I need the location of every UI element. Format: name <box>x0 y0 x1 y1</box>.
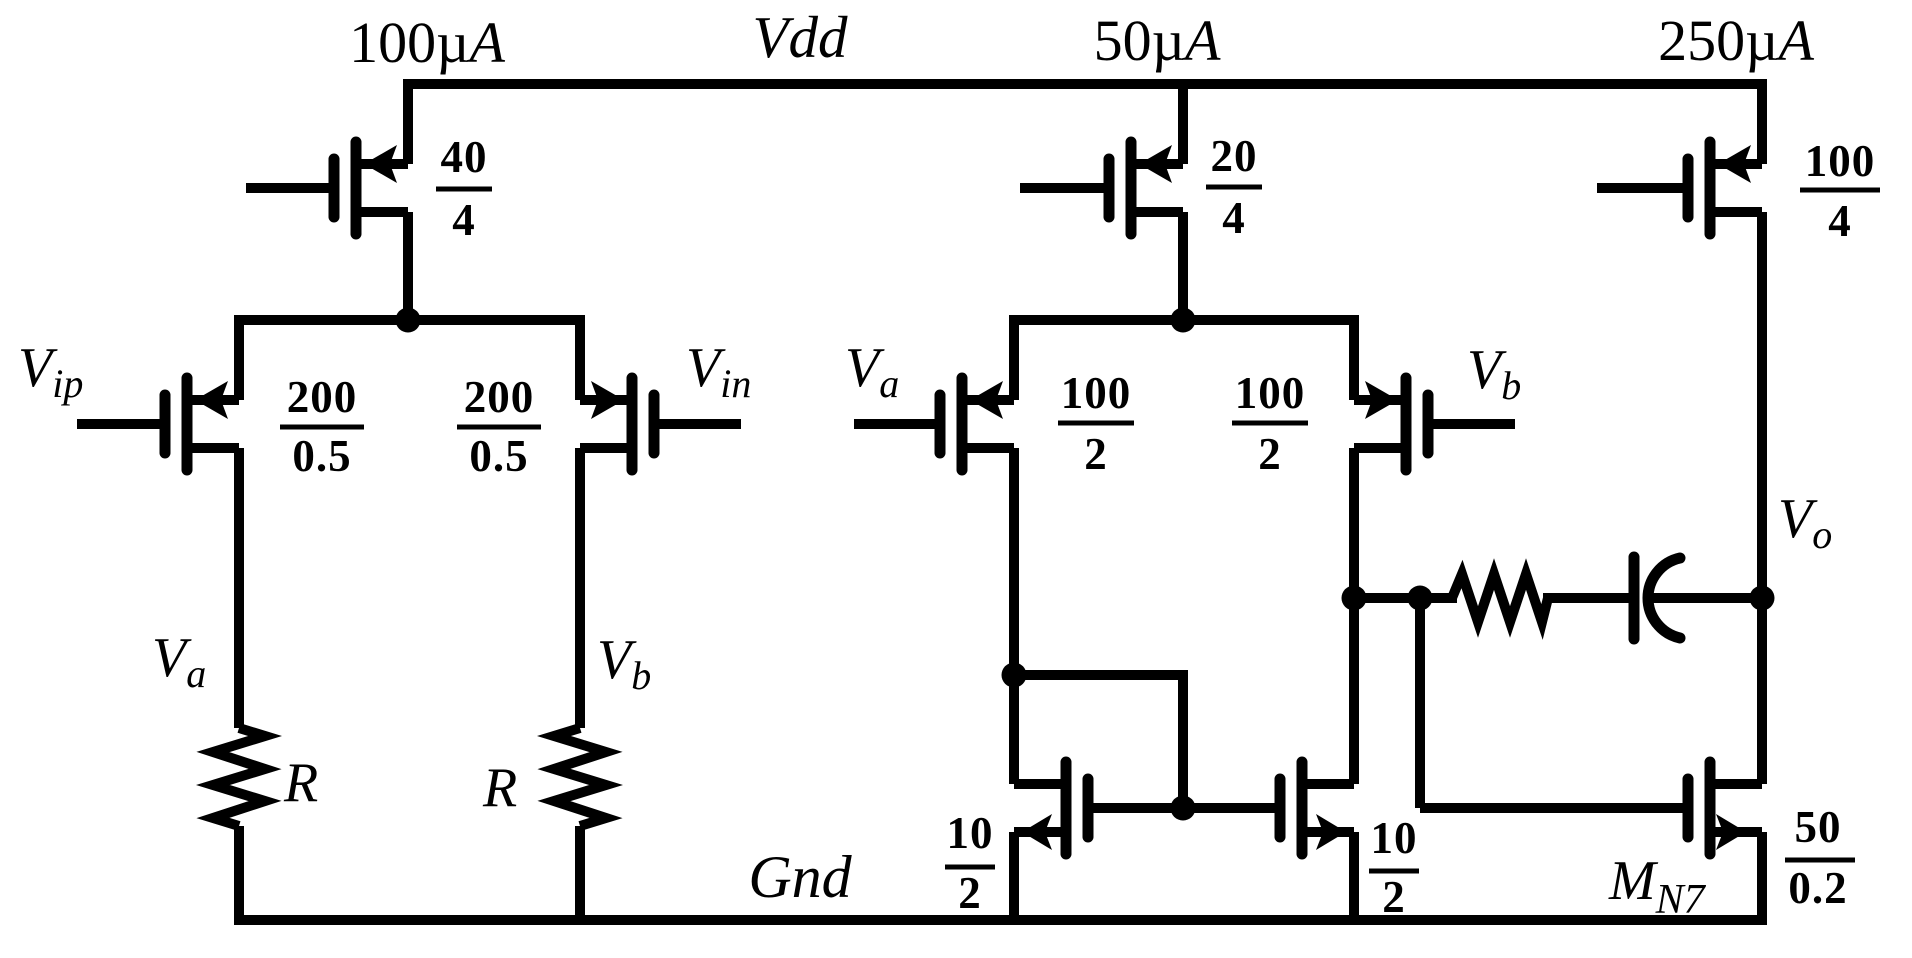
svg-text:0.5: 0.5 <box>292 431 351 481</box>
pmos M5 100/2 gate Vb <box>1354 378 1515 470</box>
wire M6 source to Vdd rail <box>1178 84 1188 164</box>
svg-text:250µA: 250µA <box>1658 8 1814 73</box>
svg-text:100µA: 100µA <box>349 10 505 75</box>
wire tail to M3 source <box>575 315 585 400</box>
svg-text:100: 100 <box>1805 136 1876 186</box>
label value M3 W/L 200/0.5 <box>464 372 535 481</box>
svg-text:0.2: 0.2 <box>1788 863 1847 913</box>
wire M5 drain down to M9 drain <box>1349 448 1359 784</box>
wire M8 diode tap (drain to gate link) <box>1014 675 1183 808</box>
node second-stage output junction <box>1342 586 1367 611</box>
wire R2 bottom to Gnd rail <box>575 826 585 925</box>
svg-text:2: 2 <box>1258 429 1282 479</box>
wire M4 drain down to M8 drain <box>1009 448 1019 784</box>
node second-stage tail junction <box>1171 308 1196 333</box>
wire gate link M8-M9 <box>1088 803 1280 813</box>
svg-text:100: 100 <box>1061 368 1132 418</box>
node first-stage tail junction <box>396 308 421 333</box>
wire Vdd rail with end drops to M1 and M7 source leads <box>408 84 1762 164</box>
compensation resistor Rz <box>1452 574 1548 622</box>
wire Rz to Cc left plate <box>1543 593 1630 603</box>
svg-text:Vdd: Vdd <box>752 4 848 70</box>
label value M4 W/L 100/2 <box>1061 368 1132 479</box>
svg-text:4: 4 <box>1222 193 1246 243</box>
svg-text:2: 2 <box>1382 872 1406 922</box>
svg-text:2: 2 <box>1084 429 1108 479</box>
wire Cc right plate to node Vo <box>1650 593 1762 603</box>
label value M9 W/L 10/2 <box>1371 813 1418 922</box>
wire node Vb (M3 drain to R2 top) <box>575 448 585 728</box>
wire M6 drain to second-stage tail node <box>1178 212 1188 320</box>
nmos M9 10/2 mirror output <box>1280 762 1354 854</box>
wire first-stage tail horizontal <box>234 315 585 325</box>
wire second-stage output to compensation branch <box>1354 593 1457 603</box>
node Vo junction <box>1750 586 1775 611</box>
svg-text:10: 10 <box>1371 813 1418 863</box>
label value M5 W/L 100/2 <box>1235 368 1306 479</box>
pmos M2 200/0.5 input Vip <box>77 378 239 470</box>
pmos M1 40/4 first-stage tail current source <box>246 142 408 234</box>
label value M7 W/L 100/4 <box>1805 136 1876 246</box>
svg-text:40: 40 <box>441 132 488 182</box>
svg-text:10: 10 <box>947 808 994 858</box>
wire M7 drain down through node Vo to MN7 drain <box>1757 212 1767 784</box>
nmos MN7 50/0.2 output driver <box>1688 762 1762 854</box>
svg-text:100: 100 <box>1235 368 1306 418</box>
resistor R1 (left, node Va to Gnd) <box>213 728 265 826</box>
wire M1 drain to first-stage tail node <box>403 212 413 320</box>
label value M2 W/L 200/0.5 <box>287 372 358 481</box>
wire M8 source to Gnd rail <box>1009 832 1019 925</box>
svg-text:4: 4 <box>452 195 476 245</box>
svg-text:50µA: 50µA <box>1094 8 1221 73</box>
svg-text:R: R <box>482 757 517 819</box>
wire tail to M4 source <box>1009 315 1019 400</box>
wire tail to M2 source <box>234 315 244 400</box>
svg-text:200: 200 <box>464 372 535 422</box>
wire MN7 gate drop vertical <box>1415 598 1425 808</box>
node MN7 gate junction <box>1408 586 1433 611</box>
svg-text:0.5: 0.5 <box>469 431 528 481</box>
wire M9 source to Gnd rail <box>1349 832 1359 925</box>
wire Gnd rail <box>234 915 1767 925</box>
wire MN7 source to Gnd rail <box>1757 832 1767 925</box>
svg-text:200: 200 <box>287 372 358 422</box>
wire MN7 gate lead horizontal <box>1420 803 1688 813</box>
svg-text:20: 20 <box>1211 131 1258 181</box>
wire node Va (M2 drain to R1 top) <box>234 448 244 728</box>
wire tail to M5 source <box>1349 315 1359 400</box>
svg-text:4: 4 <box>1828 196 1852 246</box>
label value MN7 W/L 50/0.2 <box>1788 802 1847 913</box>
label value M1 W/L 40/4 <box>441 132 488 245</box>
wire R1 bottom to Gnd rail <box>234 826 244 925</box>
svg-text:Gnd: Gnd <box>748 844 852 910</box>
wire second-stage tail horizontal <box>1009 315 1359 325</box>
resistor R2 (right, node Vb to Gnd) <box>554 728 606 826</box>
pmos M3 200/0.5 input Vin <box>580 378 741 470</box>
node mirror gate junction <box>1171 796 1196 821</box>
svg-text:2: 2 <box>958 868 982 918</box>
label value M8 W/L 10/2 <box>947 808 994 918</box>
pmos M4 100/2 gate Va <box>854 378 1014 470</box>
compensation capacitor Cc <box>1634 557 1680 639</box>
nmos M8 10/2 diode-connected mirror <box>1014 762 1088 854</box>
pmos M7 100/4 output current source <box>1597 142 1762 234</box>
svg-text:R: R <box>283 752 318 814</box>
label value M6 W/L 20/4 <box>1211 131 1258 243</box>
node M8 diode tap junction <box>1002 663 1027 688</box>
pmos M6 20/4 second-stage tail current source <box>1020 142 1183 234</box>
svg-text:50: 50 <box>1795 802 1842 852</box>
